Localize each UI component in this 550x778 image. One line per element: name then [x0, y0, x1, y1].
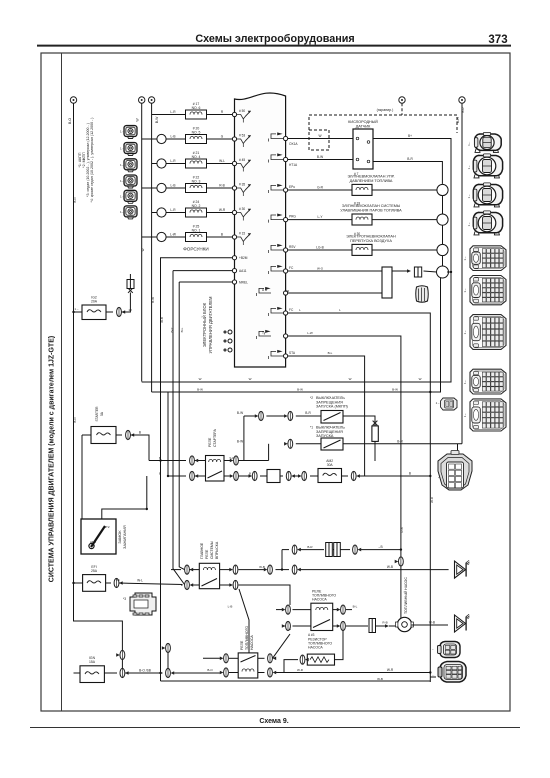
IG2 fuse 20A	[74, 296, 107, 320]
svg-text:B-R: B-R	[305, 411, 311, 415]
circuit opening relay bottom row	[229, 668, 430, 677]
bus Q from B-W terminal to solenoid 4	[152, 278, 441, 392]
in-line connector above splice	[127, 274, 134, 289]
svg-text:B: B	[249, 472, 251, 476]
svg-text:25A: 25A	[91, 569, 98, 573]
svg-text:G-R: G-R	[317, 186, 324, 190]
svg-text:B-O: B-O	[73, 417, 77, 423]
rotated footnotes	[78, 118, 94, 203]
shield dashed box	[309, 130, 329, 150]
svg-text:B-O /SB: B-O /SB	[139, 669, 151, 673]
svg-text:L-R: L-R	[170, 208, 176, 212]
EFI fuse 25A	[74, 565, 106, 591]
wire bus W vertical	[141, 103, 143, 381]
svg-text:30A: 30A	[327, 463, 334, 467]
svg-text:1K: 1K	[116, 578, 120, 582]
in-line noise filter vertical	[372, 421, 378, 461]
stub to check connector	[430, 676, 436, 678]
wire FC row with in-line resistor	[288, 271, 437, 272]
connector after EFI fuse	[106, 578, 183, 587]
svg-text:B-O: B-O	[68, 118, 72, 124]
ECU right pin labels	[262, 142, 298, 355]
svg-text:СТАРТЕРА: СТАРТЕРА	[213, 428, 217, 447]
wire bus B-W vertical	[151, 103, 153, 392]
svg-text:Схема 9.: Схема 9.	[259, 718, 288, 725]
wire bus B-R vertical right	[461, 103, 463, 444]
connector J2 (round, right column)	[473, 154, 502, 178]
oxygen sensor КИСЛОРОДНЫЙ ДАТЧИК	[348, 120, 378, 169]
connector pair on switch row 1	[255, 411, 293, 420]
connector E2 (grid, right column)	[470, 276, 506, 305]
wire switch1 to drop	[343, 416, 375, 426]
svg-text:B-Y: B-Y	[170, 327, 174, 332]
ECU internal drivers (left column)	[237, 110, 251, 245]
svg-text:B: B	[409, 472, 411, 476]
svg-text:1←: 1←	[120, 163, 125, 167]
solenoid circle 4	[437, 266, 449, 278]
svg-text:B-O: B-O	[207, 668, 213, 672]
svg-text:A #3: A #3	[308, 633, 315, 637]
svg-text:W: W	[349, 377, 352, 381]
solenoid circle 1	[437, 184, 448, 195]
svg-text:W-B: W-B	[259, 565, 265, 569]
svg-text:W: W	[141, 248, 145, 251]
fuel pump relay contact row	[282, 621, 368, 630]
svg-text:W-G: W-G	[317, 267, 324, 271]
injector resistor box #25 NO.1 + label ФОРСУНКИ	[183, 225, 208, 252]
injector solenoid circle row3	[157, 159, 166, 168]
svg-text:B-W: B-W	[237, 411, 243, 415]
ECU left lower pins	[232, 256, 236, 285]
park/neutral switch ВЫКЛЮЧАТЕЛЬ ЗАПРЕЩЕНИЯ ЗАПУСКА (МКПП)	[310, 396, 349, 423]
circuit opening relay label	[240, 626, 254, 650]
svg-text:B: B	[139, 431, 141, 435]
wire HT1A to sensor heater	[288, 155, 353, 160]
connector E1 (grid, right column)	[470, 246, 506, 271]
svg-text:B-L: B-L	[353, 605, 358, 609]
svg-text:# 30: # 30	[354, 232, 360, 236]
svg-text:LG-B: LG-B	[316, 246, 323, 250]
circuit opening relay РЕЛЕ ТОПЛИВНОГО НАСОСА	[238, 653, 258, 678]
connectors on branch row	[292, 545, 361, 554]
starter relay coil row wires	[149, 460, 269, 462]
svg-text:STA: STA	[289, 351, 296, 355]
connector J1 (round, right column)	[475, 132, 502, 152]
connector E5 (grid, right column)	[470, 399, 506, 431]
solenoid chain vertical wires	[443, 196, 452, 272]
svg-text:НАСОСА: НАСОСА	[250, 635, 254, 650]
wire left bus continues to IGN fuse	[121, 660, 123, 674]
svg-text:PRG: PRG	[289, 215, 296, 219]
svg-text:*1: *1	[310, 426, 313, 430]
park/neutral switch row 1 wire	[237, 411, 321, 416]
wire fuel pump feed	[288, 336, 401, 550]
svg-text:B-R: B-R	[397, 439, 403, 443]
svg-text:NO. 3: NO. 3	[192, 179, 201, 183]
svg-text:# 45: # 45	[239, 158, 245, 162]
svg-text:R-B: R-B	[400, 527, 404, 532]
wire EPu to fuel pressure valve	[288, 186, 352, 191]
svg-text:W: W	[318, 134, 321, 138]
svg-text:1←: 1←	[467, 141, 471, 146]
ECU vertical label ЭЛЕКТРОННЫЙ БЛОК УПРАВЛЕНИЯ ДВИГАТЕЛЕМ	[202, 296, 213, 353]
ECU (engine control unit) body with torn top edge	[235, 93, 286, 367]
circuit opening relay top row	[203, 634, 290, 663]
svg-text:B-L: B-L	[180, 327, 184, 332]
svg-text:ST2: ST2	[104, 525, 110, 529]
svg-text:NO. 5: NO. 5	[192, 130, 201, 134]
svg-text:ГЛАВНОЕ: ГЛАВНОЕ	[200, 542, 204, 559]
svg-text:ТОПЛИВНОГО: ТОПЛИВНОГО	[245, 626, 249, 650]
injector row 2 wire	[142, 135, 235, 140]
ECU left edge spare pins	[224, 330, 232, 352]
wire junction drop to starter relay row	[243, 416, 245, 461]
svg-text:→B: →B	[377, 545, 382, 549]
ECU internal drivers (right column)	[257, 132, 284, 359]
wire switch2 to right bus	[343, 439, 462, 450]
svg-text:*3: *3	[123, 597, 126, 601]
injector solenoid circle row6	[157, 232, 166, 241]
injector resistor box #24 NO.2	[186, 200, 207, 217]
svg-text:NO. 6: NO. 6	[192, 106, 201, 110]
svg-text:S-R: S-R	[229, 456, 235, 460]
svg-text:ЗАПУСКА (МКПП): ЗАПУСКА (МКПП)	[316, 405, 349, 409]
svg-text:MREL: MREL	[239, 281, 248, 285]
outer frame	[41, 53, 510, 711]
svg-text:W-B: W-B	[160, 317, 164, 323]
left label separator	[61, 53, 63, 711]
fuel pump resistor РЕЗИСТОР ТОПЛИВНОГО НАСОСА	[307, 654, 334, 665]
svg-text:B: B	[159, 472, 161, 476]
ground triangle 1	[455, 560, 470, 578]
wire pump feed down	[400, 550, 402, 618]
fusible link box AM2 30A	[318, 459, 342, 483]
wire AB row into resistor bottom	[288, 292, 382, 294]
svg-text:L-B: L-B	[171, 135, 176, 139]
in-line connector on FC row	[407, 267, 422, 277]
injector row 6 wire	[142, 233, 235, 238]
evap VSV ЭЛ/ПНЕВМОКЛАПАН СИСТЕМЫ УЛАВЛИВАНИЯ ПАРОВ ТОПЛИВА	[340, 202, 402, 226]
fuel pump relay coil row	[276, 605, 352, 614]
resistor row wires	[284, 630, 343, 673]
injector solenoid circle row5	[157, 208, 166, 217]
svg-text:B-W: B-W	[392, 388, 398, 392]
svg-text:ТОПЛИВНЫЙ НАСОС: ТОПЛИВНЫЙ НАСОС	[404, 577, 408, 614]
svg-text:←: ←	[432, 673, 435, 677]
svg-text:W-B: W-B	[429, 621, 435, 625]
svg-text:AA11: AA11	[239, 269, 247, 273]
svg-text:ДАТЧИК: ДАТЧИК	[356, 124, 371, 128]
svg-text:РЕЛЕ: РЕЛЕ	[205, 549, 209, 559]
svg-text:1←: 1←	[120, 179, 125, 183]
svg-text:1←: 1←	[467, 165, 471, 170]
wire MREL from ECU	[161, 258, 233, 681]
svg-text:W-L: W-L	[137, 579, 143, 583]
svg-text:L-R: L-R	[170, 110, 176, 114]
svg-text:W-R: W-R	[387, 668, 394, 672]
svg-text:# 35: # 35	[239, 183, 245, 187]
wire RSV to air bypass valve	[288, 246, 352, 251]
svg-text:# 50: # 50	[239, 109, 245, 113]
terminal W	[136, 97, 145, 122]
svg-text:W: W	[199, 377, 202, 381]
fuel pump relay label	[312, 590, 336, 602]
svg-text:*4: кроме седан (10.2002 - ),: *4: кроме седан (10.2002 - ), универсал …	[90, 118, 94, 203]
svg-text:ЭЛЕКТРОННЫЙ БЛОК: ЭЛЕКТРОННЫЙ БЛОК	[202, 302, 207, 347]
main relay label	[200, 541, 219, 559]
svg-text:B-W: B-W	[155, 116, 159, 123]
injector resistor box #17 NO.6	[186, 102, 207, 119]
svg-text:1←: 1←	[467, 222, 471, 227]
connector above IGN fuse	[116, 650, 125, 659]
connector on switch row 2	[284, 439, 293, 448]
svg-text:W-B: W-B	[387, 565, 393, 569]
wire FC2 long to right bus	[288, 313, 431, 682]
start inhibit switch ВЫКЛЮЧАТЕЛЬ ЗАПРЕЩЕНИЯ ЗАПУСКА	[310, 426, 345, 451]
starter relay РЕЛЕ СТАРТЕРА	[206, 456, 225, 482]
svg-text:RSV: RSV	[289, 245, 296, 249]
svg-text:W-R: W-R	[430, 496, 434, 503]
svg-text:FC: FC	[289, 308, 294, 312]
svg-text:ДАВЛЕНИЕМ ТОПЛИВА: ДАВЛЕНИЕМ ТОПЛИВА	[350, 179, 393, 183]
svg-text:W-R: W-R	[219, 208, 226, 212]
air bypass VSV ЭЛЕКТРОПНЕВМОКЛАПАН ПЕРЕПУСКА ВОЗДУХА	[346, 232, 396, 255]
injector resistor box #21 NO.4	[186, 151, 207, 168]
svg-text:20A: 20A	[91, 300, 98, 304]
svg-text:1←: 1←	[436, 401, 441, 405]
STARTER fuse 5A	[82, 406, 116, 444]
svg-text:B-L: B-L	[328, 351, 333, 355]
svg-text:ВПРЫСКА: ВПРЫСКА	[215, 541, 219, 559]
header rule	[37, 45, 511, 47]
svg-text:РЕЛЕ: РЕЛЕ	[240, 640, 244, 650]
small connector (right, mid)	[436, 398, 457, 410]
wire PRG to evap valve	[288, 215, 352, 220]
wire bus crossover diagonals to main relay	[173, 271, 185, 585]
wire valve1 to solenoid circle	[372, 189, 437, 191]
svg-text:# 33: # 33	[354, 202, 360, 206]
connector J4 (round, right column)	[473, 211, 502, 235]
connector J3 (round, right column)	[473, 183, 502, 207]
solenoid circle 2	[437, 214, 448, 225]
svg-text:1←: 1←	[463, 288, 467, 293]
stub connector above IGN row	[162, 643, 171, 668]
ground triangle 2	[455, 614, 470, 632]
svg-text:(экранир.): (экранир.)	[377, 108, 394, 112]
wire left bus B-O vertical	[74, 103, 123, 651]
wire sensor heater return	[373, 157, 442, 184]
svg-text:B-R: B-R	[307, 545, 313, 549]
svg-text:B-R: B-R	[461, 107, 465, 113]
svg-text:1←: 1←	[467, 194, 471, 199]
connectors on IGN row	[120, 668, 228, 678]
svg-text:AM2: AM2	[90, 540, 97, 544]
fuel pump ТОПЛИВНЫЙ НАСОС	[396, 577, 414, 632]
starter relay label	[208, 428, 217, 447]
bus P from W terminal up to solenoid junction	[142, 272, 451, 382]
starter relay contact row wires	[168, 472, 430, 477]
svg-text:1←: 1←	[463, 413, 467, 418]
svg-text:B: B	[221, 233, 223, 237]
big octagonal connector (right)	[437, 451, 472, 491]
svg-text:NO. 1: NO. 1	[192, 228, 201, 232]
footer rule	[30, 727, 520, 729]
terminal B-R	[456, 97, 465, 123]
svg-text:NO. 2: NO. 2	[192, 204, 201, 208]
connector E4 (grid, right column)	[470, 369, 506, 394]
svg-text:УПРАВЛЕНИЯ ДВИГАТЕЛЕМ: УПРАВЛЕНИЯ ДВИГАТЕЛЕМ	[208, 296, 213, 353]
svg-text:СИСТЕМА УПРАВЛЕНИЯ ДВИГАТЕЛЕМ: СИСТЕМА УПРАВЛЕНИЯ ДВИГАТЕЛЕМ (модели с …	[49, 336, 56, 582]
ECU left pins injector rows	[232, 112, 236, 239]
terminal B-Y shield	[399, 97, 405, 103]
ECU right pins	[284, 136, 288, 358]
connector E3 (grid, right column)	[470, 315, 506, 350]
svg-text:NO. 4: NO. 4	[192, 155, 201, 159]
svg-text:СИСТЕМЫ: СИСТЕМЫ	[210, 541, 214, 559]
terminal B-O	[68, 97, 77, 124]
wire STA row	[288, 356, 365, 476]
injector connector icons column	[120, 126, 137, 219]
barrel connector icon	[416, 286, 429, 303]
connectors on contact row	[190, 471, 360, 480]
svg-text:УЛАВЛИВАНИЯ ПАРОВ ТОПЛИВА: УЛАВЛИВАНИЯ ПАРОВ ТОПЛИВА	[340, 208, 402, 212]
svg-text:Ty: Ty	[262, 331, 266, 335]
svg-text:ФОРСУНКИ: ФОРСУНКИ	[183, 247, 208, 252]
injector resistor box #20 NO.5	[186, 127, 207, 144]
svg-text:FC: FC	[289, 266, 294, 270]
shield drain dashed wire	[309, 103, 457, 140]
twin in-line connectors	[326, 543, 341, 557]
wire pump to ground triangle 2	[411, 621, 448, 626]
wire sensor B+ to right bus	[373, 134, 451, 266]
svg-text:B-W: B-W	[197, 388, 203, 392]
svg-text:1←: 1←	[120, 147, 125, 151]
bottom-right big connector	[432, 662, 466, 683]
svg-text:ПЕРЕПУСКА ВОЗДУХА: ПЕРЕПУСКА ВОЗДУХА	[350, 239, 392, 243]
svg-text:# 53: # 53	[239, 134, 245, 138]
svg-text:1←: 1←	[463, 256, 467, 261]
svg-text:L-W: L-W	[307, 331, 313, 335]
svg-text:L-R: L-R	[170, 159, 176, 163]
svg-text:ЗАМОК: ЗАМОК	[118, 530, 122, 544]
svg-text:1→: 1→	[74, 307, 79, 311]
park/neutral switch row 2 wire	[237, 439, 321, 460]
svg-text:*2: *2	[310, 396, 313, 400]
svg-text:B-W: B-W	[317, 155, 323, 159]
svg-text:1J: 1J	[128, 308, 132, 312]
injector resistor box #22 NO.3	[186, 176, 207, 193]
svg-text:ЗАПУСКА: ЗАПУСКА	[316, 434, 334, 438]
injector solenoid circle row2	[157, 134, 166, 143]
svg-text:OX1A: OX1A	[289, 142, 298, 146]
svg-text:R-B: R-B	[382, 621, 387, 625]
IGN fuse output row	[104, 669, 220, 674]
bottom return bus	[161, 680, 431, 682]
IGN fuse 15A	[74, 656, 105, 683]
bottom-right oval connector	[432, 642, 461, 658]
solenoid circle 3	[437, 244, 448, 255]
wire colour labels	[73, 107, 465, 681]
connector after starter fuse	[116, 430, 149, 460]
ammeter box on contact row	[267, 470, 280, 483]
in-line fuse on pump wire	[369, 619, 398, 633]
svg-text:B-W: B-W	[297, 388, 303, 392]
svg-text:L-W: L-W	[170, 233, 176, 237]
ignition switch label	[118, 525, 127, 549]
branch from coil row up	[282, 545, 401, 570]
svg-text:L-B: L-B	[171, 184, 176, 188]
svg-text:НАСОСА: НАСОСА	[312, 598, 327, 602]
wire bend down to starter contact row	[167, 392, 169, 476]
svg-text:1←: 1←	[463, 379, 467, 384]
wire OX1A to oxygen sensor	[288, 134, 353, 139]
ECU left pin numbers	[239, 109, 248, 285]
connector on pump feed	[395, 557, 404, 566]
svg-text:EPu: EPu	[289, 185, 295, 189]
svg-text:1←: 1←	[437, 474, 441, 479]
svg-text:STARTER: STARTER	[95, 406, 99, 422]
injector solenoid circle row4	[157, 183, 166, 192]
terminal B-W	[148, 97, 159, 123]
svg-text:←: ←	[432, 647, 435, 651]
injector row 5 wire	[152, 208, 235, 213]
svg-text:W-L: W-L	[219, 159, 225, 163]
svg-text:# 7: # 7	[354, 172, 359, 176]
svg-text:B-W: B-W	[151, 297, 155, 303]
wire +B from ECU	[173, 270, 232, 272]
svg-text:ЗАЖИГАНИЯ: ЗАЖИГАНИЯ	[123, 525, 127, 549]
fuel pressure VSV ЭЛ/ПНЕВМОКЛАПАН УПР. ДАВЛЕНИЕМ ТОПЛИВА	[347, 172, 394, 195]
svg-text:B+: B+	[408, 134, 412, 138]
relay block connector drawing	[123, 593, 156, 615]
connectors on main relay contact row	[185, 580, 238, 589]
svg-text:1←: 1←	[120, 210, 125, 214]
connectors on main relay coil row	[185, 565, 301, 574]
svg-text:1←: 1←	[120, 130, 125, 134]
svg-text:Схемы электрооборудования: Схемы электрооборудования	[195, 33, 354, 45]
main EFI relay ГЛАВНОЕ РЕЛЕ СИСТЕМЫ ВПРЫСКА	[199, 563, 219, 588]
injector row 3 wire	[152, 159, 235, 164]
svg-text:W-R: W-R	[297, 668, 304, 672]
svg-text:W: W	[419, 377, 422, 381]
connectors on relay coil row	[190, 456, 239, 465]
svg-text:A B: A B	[262, 288, 267, 292]
fuel pump relay РЕЛЕ ТОПЛИВНОГО НАСОСА	[311, 603, 333, 630]
fuel pump resistor label	[308, 633, 332, 650]
diagonal wire to circuit opening relay	[239, 589, 249, 653]
wire +B2 from ECU	[179, 281, 232, 283]
svg-text:РЕЛЕ: РЕЛЕ	[208, 437, 212, 447]
svg-text:R-B: R-B	[219, 184, 225, 188]
wire battery feed down to ignition switch	[81, 435, 83, 519]
svg-text:373: 373	[488, 34, 507, 46]
svg-text:15A: 15A	[89, 660, 96, 664]
svg-text:# 15: # 15	[239, 232, 245, 236]
svg-text:1←: 1←	[120, 194, 125, 198]
main relay coil row	[171, 565, 449, 570]
wire valve2 to solenoid circle	[372, 219, 437, 221]
svg-text:B-R: B-R	[407, 157, 413, 161]
svg-text:W: W	[249, 377, 252, 381]
svg-text:1←: 1←	[463, 330, 467, 335]
injector row 1 wire	[152, 110, 235, 115]
svg-text:НАСОСА: НАСОСА	[308, 646, 323, 650]
svg-text:L-Y: L-Y	[318, 215, 324, 219]
main relay contact row	[181, 585, 290, 605]
ignition switch ЗАМОК ЗАЖИГАНИЯ	[81, 519, 116, 554]
svg-text:L-B: L-B	[228, 605, 233, 609]
wire ignition ST2 up and right	[102, 476, 147, 519]
